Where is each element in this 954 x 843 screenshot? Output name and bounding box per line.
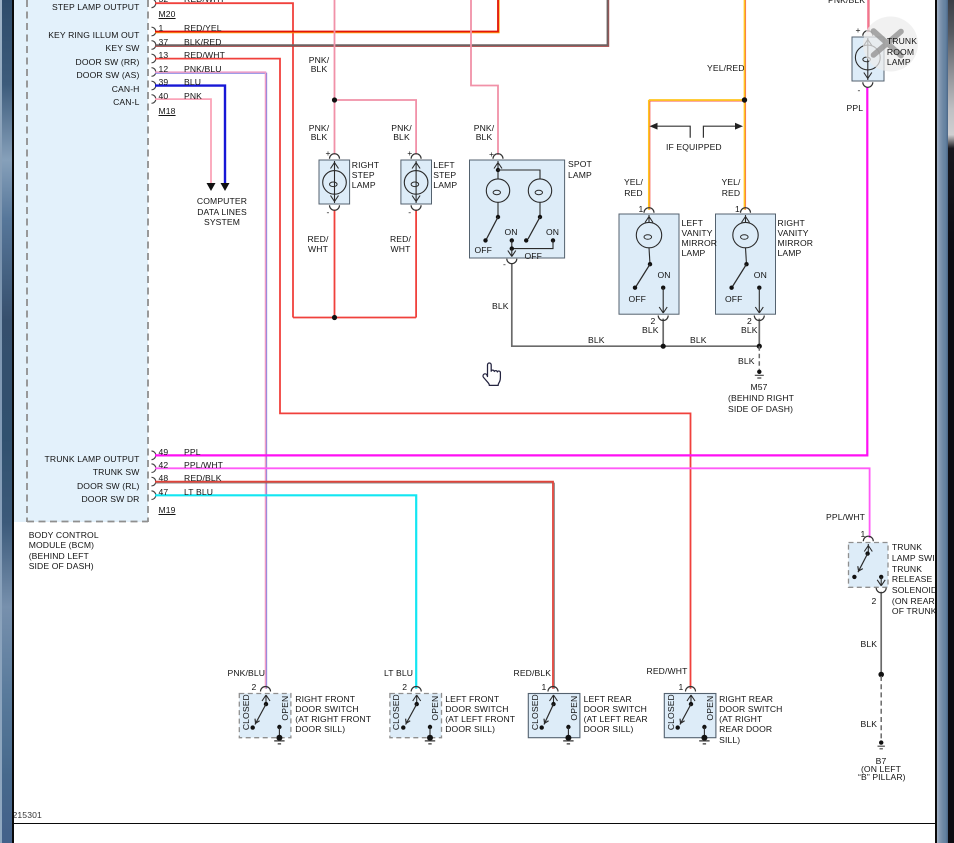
junction BLK left vanity [661,344,666,349]
page frame bottom border [12,823,937,825]
wire BLU pin39 CAN-H [155,86,225,188]
wire PPL pin49 trunk lamp output [155,87,867,455]
label LEFT STEP LAMP [433,160,457,191]
wire PNK/BLU pin12 to right front door switch [155,72,266,689]
wire RED/YEL pin1 [155,0,498,32]
switch LEFT FRONT DOOR SWITCH [390,687,442,744]
lamp unit SPOT LAMP [470,154,565,264]
BCM pin bump 1 [152,27,156,36]
junction YEL/RED [742,97,747,102]
arrow CAN-L to computer data lines [207,183,216,191]
lamp LEFT STEP LAMP [401,154,432,211]
door switch wire labels [228,668,266,678]
wire labels YEL/RED vanity [621,177,647,198]
BCM pin name labels [20,2,140,12]
page frame right border [935,0,937,843]
polarity labels step lamps [326,148,331,158]
label RIGHT REAR DOOR SWITCH [719,694,782,745]
label TRUNK ROOM LAMP [887,36,917,67]
page frame left border [12,0,14,843]
ground B7 [878,740,885,748]
spot lamp switch labels [505,227,518,237]
scrollbar thumb strip [937,0,948,843]
polarity labels spot lamp [489,149,494,159]
label RIGHT VANITY MIRROR LAMP [778,218,814,259]
scrollbar dark track [948,0,954,843]
wire labels BLK [492,301,509,311]
wire label PPL/WHT [826,512,865,522]
wire labels RED/WHT [305,234,331,255]
cut-off pin 32 row at top [159,0,169,3]
wire RED/YEL pin1 stripe [155,0,499,33]
BCM body control module box fill [13,0,148,522]
lamp RIGHT STEP LAMP [319,154,350,211]
wire RED/BLK pin48 stripe [155,483,554,689]
label LEFT REAR DOOR SWITCH [584,694,648,735]
label LEFT FRONT DOOR SWITCH [445,694,515,735]
label RIGHT STEP LAMP [352,160,379,191]
wire label YEL/RED top [707,63,745,73]
right vanity switch labels [754,270,767,280]
left vanity switch labels [658,270,671,280]
wire BLK/RED pin37 [155,0,608,45]
wire PNK to trunk room lamp [867,0,869,32]
wire RED/WHT pin32 step lamp output [155,3,293,317]
page frame left photo strip [0,0,12,843]
label SPOT LAMP [568,159,592,180]
wire PPL/WHT pin42 trunk switch [155,468,870,538]
document number [13,810,42,820]
BCM pin bump 47 [152,491,156,500]
wire PNK/BLK feed to step lamps [335,0,417,155]
label TRUNK LAMP SWITCH TRUNK RELEASE SOLENOID [892,542,953,617]
wire PNK pin40 CAN-L [155,99,211,188]
arrow CAN-H to computer data lines [221,183,230,191]
wire BLK right vanity return [758,319,760,347]
watermark broken-image X over trunk room lamp [863,17,918,72]
door switch CLOSED/OPEN labels [241,692,251,732]
connector M19 [159,505,176,515]
wire BLK trunk switch to B7 [880,592,882,674]
BCM pin bump 37 [152,41,156,50]
trunk switch pin labels [861,529,866,539]
label IF EQUIPPED [666,142,722,152]
wire PNK to trunk room lamp stripe [868,0,870,32]
switch LEFT REAR DOOR SWITCH [528,687,580,744]
connector M20 [159,9,176,19]
switch RIGHT REAR DOOR SWITCH [664,687,716,744]
wire RED/BLK pin48 to left rear door switch [155,482,553,689]
connector M18 [159,106,176,116]
switch RIGHT FRONT DOOR SWITCH [239,687,291,744]
wire LT BLU pin47 to left front door switch [155,495,416,688]
wire label PPL [847,103,864,113]
junction RED/WHT step lamp return [332,315,337,320]
BCM pin bump 12 [152,68,156,77]
switch TRUNK LAMP SWITCH [849,536,889,593]
wire BLK dashed to B7 [880,676,882,741]
wire PNK/BLU pin12 stripe [155,73,267,689]
cut-off wire label top right [828,0,865,3]
wire YEL/RED stripes [649,0,746,210]
BCM pin numbers and wire colours [159,23,164,33]
lamp TRUNK ROOM LAMP [852,31,884,88]
label RIGHT FRONT DOOR SWITCH [295,694,371,735]
wire labels PNK/BLK [306,56,332,75]
BCM caption [29,530,99,572]
BCM pin bump 49 [152,451,156,460]
wire BLK left vanity return [662,319,664,347]
junction BLK right vanity [757,344,762,349]
junction PNK/BLK step lamps [332,97,337,102]
wire BLK spot lamp return [512,263,760,346]
wire RED/WHT pin13 to right rear door switch [155,59,691,689]
door switch pin numbers [252,682,257,692]
label LEFT VANITY MIRROR LAMP [682,218,718,259]
ground label M57 [728,382,790,414]
wire RED/WHT step lamp returns [293,210,416,318]
wire PNK/BLK feed to spot lamp [471,0,498,155]
wire BLK dashed to M57 [758,346,760,369]
lamp RIGHT VANITY MIRROR LAMP [716,208,776,321]
mouse hand cursor [483,363,500,385]
lamp LEFT VANITY MIRROR LAMP [619,208,679,321]
BCM pin bump 32 [152,0,156,8]
BCM pin bump 40 [152,95,156,104]
BCM pin bump 13 [152,54,156,63]
BCM pin bump 39 [152,81,156,90]
BCM pin bump 42 [152,464,156,473]
vanity lamp pin labels [639,204,644,214]
junction BLK trunk [878,672,884,678]
BCM pin bump 48 [152,477,156,486]
ground label B7 [858,758,904,782]
polarity labels trunk room lamp [856,25,861,35]
IF EQUIPPED arrows [650,123,744,138]
ground M57 [755,370,764,378]
wire YEL/RED to vanity lamps [649,0,745,210]
wire BLK/RED pin37 stripe [155,0,609,46]
node COMPUTER DATA LINES SYSTEM [186,196,258,227]
